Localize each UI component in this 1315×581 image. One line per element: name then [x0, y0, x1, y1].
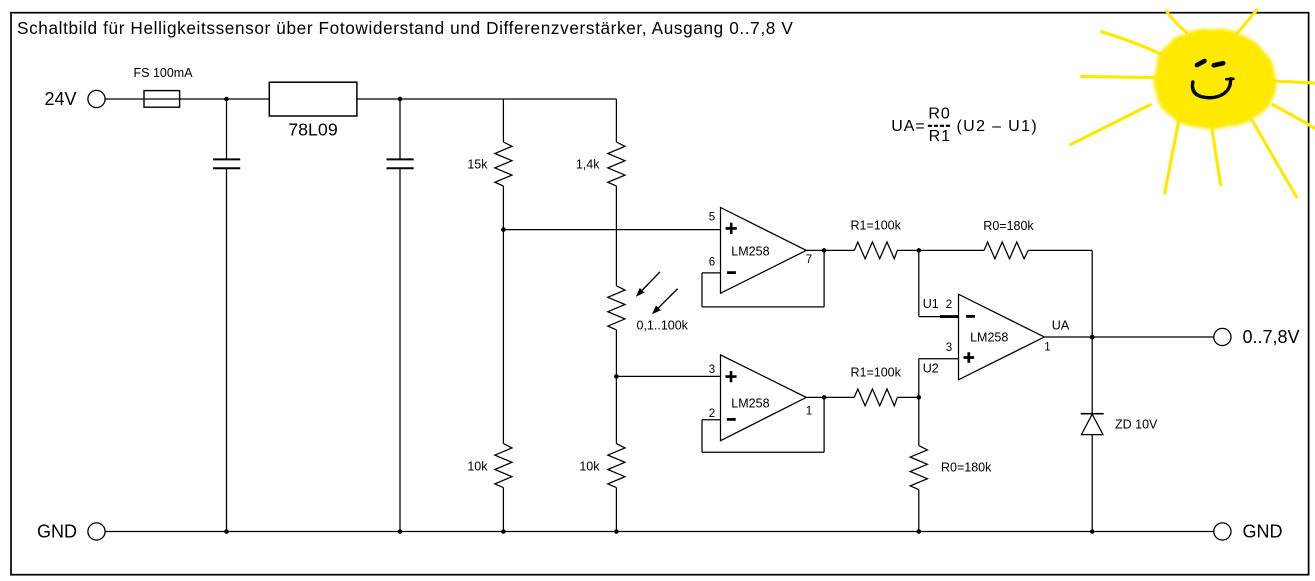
capacitor C2: [399, 99, 401, 159]
wire R0 to output: [1091, 250, 1093, 337]
resistor 1,4k: [615, 99, 617, 142]
sun left eye: [1197, 61, 1205, 65]
node gnd C1: [224, 529, 229, 534]
capacitor C1: [226, 99, 228, 159]
svg-text:R1=100k: R1=100k: [851, 366, 902, 380]
LDR arrow 1: [642, 272, 660, 290]
svg-text:UA=: UA=: [891, 118, 925, 135]
svg-text:15k: 15k: [467, 158, 488, 172]
node A: [917, 248, 922, 253]
resistor R1=100k top: [854, 242, 897, 259]
svg-text:R0=180k: R0=180k: [983, 219, 1034, 233]
svg-text:GND: GND: [1243, 522, 1283, 542]
wire top rail: [357, 98, 617, 100]
sun ray 2: [1233, 10, 1256, 38]
node gnd 10k-right: [614, 529, 619, 534]
svg-text:2: 2: [709, 408, 715, 420]
wire U2 to U3 +in: [918, 359, 920, 398]
wire: [897, 249, 919, 251]
svg-text:FS 100mA: FS 100mA: [134, 66, 194, 80]
wire U1 output: [806, 249, 854, 251]
svg-text:1: 1: [1044, 341, 1050, 353]
op-amp U2 LM258: [721, 355, 807, 441]
sun ray 6: [1165, 119, 1179, 193]
svg-text:5: 5: [709, 212, 715, 224]
svg-text:R1=100k: R1=100k: [851, 219, 902, 233]
wire UA output: [1044, 336, 1214, 338]
sun ray 3: [1102, 32, 1162, 54]
svg-text:U1: U1: [923, 297, 939, 311]
svg-text:0,1..100k: 0,1..100k: [637, 319, 689, 333]
svg-text:R0: R0: [928, 105, 950, 122]
node U1 out: [822, 248, 827, 253]
svg-text:1,4k: 1,4k: [576, 158, 600, 172]
svg-text:UA: UA: [1052, 319, 1070, 333]
GND rail: [105, 531, 1092, 533]
node J1: [224, 97, 229, 102]
sun ray 4: [1082, 77, 1160, 78]
terminal 0..7,8V: [1214, 328, 1231, 345]
svg-text:78L09: 78L09: [288, 120, 338, 140]
regulator 78L09: [269, 82, 357, 116]
svg-text:0..7,8V: 0..7,8V: [1243, 327, 1300, 347]
svg-text:LM258: LM258: [731, 396, 769, 410]
resistor 15k: [502, 99, 504, 142]
terminal GND right: [1214, 523, 1231, 540]
node U2 out: [822, 395, 827, 400]
node B: [917, 395, 922, 400]
sun ray 9: [1273, 105, 1315, 128]
wire: [502, 230, 504, 444]
sun mouth: [1192, 79, 1230, 98]
svg-text:GND: GND: [37, 522, 77, 542]
node LDR-bottom: [614, 374, 619, 379]
sun body: [1154, 29, 1277, 129]
wire: [897, 396, 919, 398]
LDR arrow 2: [658, 289, 677, 308]
svg-text:10k: 10k: [579, 459, 600, 473]
svg-text:Schaltbild für Helligkeitssens: Schaltbild für Helligkeitssensor über Fo…: [17, 18, 793, 38]
resistor 10k right: [608, 444, 625, 488]
node gnd C2: [398, 529, 403, 534]
svg-text:3: 3: [709, 364, 715, 376]
sun ray 5: [1071, 105, 1151, 145]
wire U1 feedback: [702, 272, 721, 274]
resistor R0=180k bottom: [918, 397, 920, 445]
node gnd 10k-left: [501, 529, 506, 534]
wire U1 to U3 -in: [918, 250, 920, 316]
svg-text:R1: R1: [929, 128, 951, 145]
resistor R0=180k top: [919, 249, 984, 251]
resistor 10k left: [495, 444, 512, 488]
wire to U2 +in: [616, 375, 720, 377]
svg-text:LM258: LM258: [970, 331, 1008, 345]
zener diode ZD 10V: [1091, 337, 1093, 414]
svg-text:(U2 – U1): (U2 – U1): [957, 118, 1039, 135]
svg-text:LM258: LM258: [731, 244, 769, 258]
wire: [615, 376, 617, 443]
svg-text:10k: 10k: [467, 459, 488, 473]
wire to U1 +in: [503, 229, 720, 231]
node gnd R0: [917, 529, 922, 534]
wire U2 feedback: [702, 419, 721, 421]
sun ray 10: [1275, 81, 1315, 83]
svg-text:2: 2: [946, 299, 952, 311]
svg-text:7: 7: [806, 254, 812, 266]
op-amp U1 LM258: [721, 208, 807, 294]
sun right eye: [1214, 63, 1223, 65]
node J2: [398, 97, 403, 102]
op-amp U3 LM258: [959, 294, 1045, 380]
svg-text:ZD 10V: ZD 10V: [1115, 417, 1158, 431]
sun ray 7: [1212, 126, 1221, 185]
sun ray 8: [1251, 119, 1296, 197]
svg-text:U2: U2: [923, 362, 939, 376]
svg-text:3: 3: [946, 342, 952, 354]
svg-text:24V: 24V: [44, 89, 76, 109]
svg-text:1: 1: [806, 406, 812, 418]
svg-text:6: 6: [709, 256, 715, 268]
node divider-left: [501, 227, 506, 232]
node UA: [1090, 335, 1095, 340]
resistor R1=100k bottom: [854, 389, 897, 406]
svg-text:R0=180k: R0=180k: [941, 461, 992, 475]
wire 24V rail: [105, 98, 269, 100]
sun ray 1: [1167, 11, 1187, 33]
fuse FS 100mA: [144, 91, 180, 108]
wire U2 output: [806, 396, 854, 398]
photoresistor LDR 0,1..100k: [608, 286, 625, 330]
node gnd zener: [1090, 529, 1095, 534]
